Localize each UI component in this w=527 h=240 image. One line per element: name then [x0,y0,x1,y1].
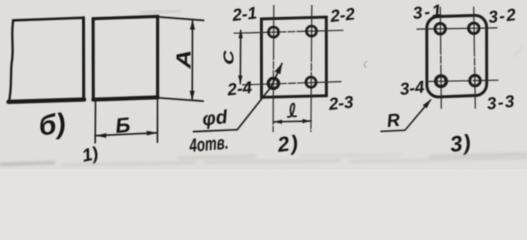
phi-d fraction bar [194,130,238,132]
dim C arrow down [238,76,242,85]
svg-text:3): 3) [449,130,473,157]
paper mottling [0,0,527,169]
hole 3-3 circle [470,75,481,86]
hole 2-4 circle (bold) [268,78,278,88]
bottom scan smudge band [0,154,527,166]
hole 2-3 circle [306,77,316,87]
svg-text:C: C [220,49,237,65]
rect б bottom edge (thick) [8,100,84,102]
dim Б left extension line [94,102,96,143]
svg-text:3-1: 3-1 [412,1,444,23]
dim Б arrow right [147,131,158,136]
dim l arrow right [302,119,311,123]
hole 3-2 circle [469,23,480,34]
R label bar [381,130,405,131]
R leader arrowhead [423,97,433,108]
svg-text:2-1: 2-1 [230,4,257,26]
faint stray arc right of plate 2 [364,61,367,68]
label script l [288,104,296,117]
phi-d leader line [237,64,282,131]
rect б top edge [13,18,84,21]
square bottom edge thick overdraw [93,97,157,99]
dim Б right extension line [156,99,158,143]
plate 3 vertical centerline right [474,7,476,108]
plate 3 vertical centerline left [440,7,441,108]
faint mark near right edge [515,47,522,56]
dim A top extension line [158,17,204,21]
dim A arrow down [190,91,195,101]
plate 3 horizontal centerline top [417,28,497,29]
hole 3-1 circle [435,23,446,34]
dim Б arrow left [96,133,107,138]
svg-text:2-4: 2-4 [225,78,253,100]
plate 2 outline [261,17,326,97]
plate 2 horizontal centerline top [234,30,343,33]
svg-text:φd: φd [201,107,228,131]
dim Б dimension line [96,133,158,136]
rect б right edge [82,18,85,100]
svg-text:4отв.: 4отв. [188,133,229,157]
svg-text:2-3: 2-3 [327,92,355,114]
hole 2-2 circle [306,26,316,36]
svg-text:б): б) [37,107,67,141]
faint smudge above square [140,11,181,13]
svg-text:R: R [386,110,401,131]
phi-d leader arrowhead [275,62,285,75]
svg-text:3-2: 3-2 [487,5,518,27]
plate 2 vertical centerline left [272,6,275,132]
svg-text:2-2: 2-2 [328,4,356,26]
svg-text:Б: Б [114,114,131,138]
square outline [93,16,158,99]
dim l arrow left [274,120,283,124]
dim l dimension line [273,120,311,123]
plate 3 horizontal centerline bottom [427,80,498,81]
hole 3-4 circle (bold) [436,76,447,87]
plate 3 rounded outline [427,15,487,97]
plate 2 vertical centerline right [310,6,313,132]
dim C dimension line [239,30,241,83]
dim A arrow up [190,20,195,30]
dim A dimension line [191,21,193,101]
rect б left break (wavy) edge [9,20,13,101]
svg-text:A: A [172,50,194,70]
svg-text:2): 2) [275,131,300,157]
hole 2-1 circle [268,27,278,37]
svg-text:3-4: 3-4 [399,77,426,99]
plate 2 horizontal centerline bottom [243,82,342,85]
dim A bottom extension line [158,98,203,101]
paper background [0,0,527,169]
dim C arrow up [239,30,243,38]
R leader line [405,100,431,130]
svg-text:3-3: 3-3 [486,92,517,114]
